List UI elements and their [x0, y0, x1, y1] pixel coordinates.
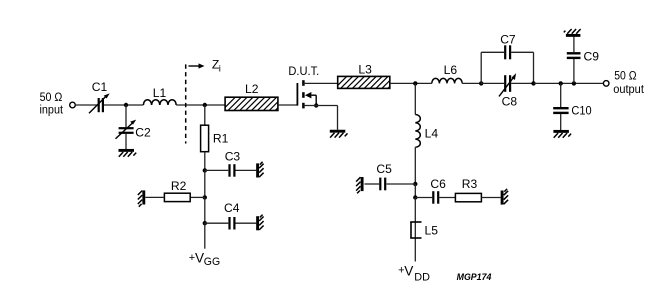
label C10: [571, 104, 591, 118]
capacitor C9: [567, 37, 581, 58]
node C6: [413, 195, 417, 199]
node parallel right: [531, 81, 535, 85]
wire node to R2: [190, 196, 205, 198]
wire L4 to C5 node: [414, 147, 416, 184]
node at R1 top: [203, 103, 207, 107]
svg-text:R1: R1: [213, 131, 229, 145]
arrow Zi: [189, 63, 205, 68]
inductor L5 (ferrite bead bracket): [410, 222, 421, 238]
label C1: [92, 80, 108, 94]
node after L3: [413, 81, 417, 85]
wire R1 node down to R2 node: [204, 170, 206, 197]
inductor L1: [143, 100, 176, 105]
wire source to ground: [303, 106, 337, 130]
wire C6 node down to L5: [414, 198, 416, 262]
svg-text:C10: C10: [571, 104, 591, 118]
wire to output: [534, 82, 604, 84]
wire node down to C10: [560, 83, 562, 107]
ground above C9: [564, 29, 581, 35]
label R3: [462, 177, 478, 191]
dashed reference line Zi: [185, 64, 187, 143]
node parallel left: [479, 81, 483, 85]
wire L2 to gate: [278, 104, 298, 106]
wire R1 to C3 node: [204, 152, 206, 171]
svg-text:C3: C3: [225, 149, 241, 163]
label R2: [171, 179, 187, 193]
resistor R3: [455, 193, 481, 201]
transistor D.U.T. (MOSFET): [297, 80, 316, 108]
inductor L2 (hatched strip): [222, 97, 288, 110]
label R1: [213, 131, 229, 145]
ground under C10: [553, 131, 571, 137]
inductor L3 (hatched strip): [335, 76, 400, 88]
ground right of R3: [502, 189, 508, 205]
label C5: [376, 162, 392, 176]
svg-text:GG: GG: [204, 256, 220, 268]
wire main branch to C8: [481, 82, 504, 84]
wire C4 node down to VGG: [204, 223, 206, 249]
label C8: [502, 95, 518, 109]
svg-text:C8: C8: [502, 95, 518, 109]
label L1: [153, 86, 167, 100]
capacitor C2 (variable shunt): [116, 120, 137, 150]
capacitor C7: [505, 45, 510, 59]
svg-text:C9: C9: [584, 50, 600, 64]
label D.U.T.: [288, 64, 319, 78]
ground left of R2: [138, 190, 144, 206]
resistor R1: [201, 125, 209, 152]
svg-text:L5: L5: [425, 224, 439, 238]
label L5: [425, 224, 439, 238]
ground left of C5: [356, 177, 362, 193]
inductor L4 (vertical): [415, 115, 420, 148]
node C3: [203, 168, 207, 172]
wire node to C3: [205, 169, 229, 171]
wire node to C2: [125, 105, 127, 127]
svg-text:L2: L2: [245, 82, 259, 96]
svg-text:C7: C7: [500, 32, 516, 46]
capacitor C10: [553, 108, 568, 130]
node C5: [413, 182, 417, 186]
wire R3 to ground: [481, 197, 500, 199]
svg-text:C6: C6: [430, 177, 446, 191]
label +VGG: [189, 251, 220, 268]
wire node down to L4: [414, 83, 416, 114]
wire R2 node down to C4 node: [204, 197, 206, 223]
svg-text:R2: R2: [171, 179, 187, 193]
capacitor C4: [230, 217, 257, 230]
svg-text:D.U.T.: D.U.T.: [288, 64, 319, 78]
capacitor C6: [433, 191, 455, 204]
svg-text:C4: C4: [224, 201, 240, 215]
wire node up to C9: [573, 59, 575, 83]
svg-text:C2: C2: [135, 125, 151, 139]
svg-text:V: V: [404, 264, 413, 279]
label L3: [358, 63, 372, 77]
wire L3 to node: [390, 82, 432, 84]
node C4: [203, 221, 207, 225]
ground under source: [330, 131, 348, 137]
svg-text:DD: DD: [414, 272, 430, 284]
wire top branch C7: [481, 52, 533, 83]
wire C8 to right node: [511, 82, 533, 84]
svg-text:output: output: [613, 82, 644, 96]
svg-text:i: i: [219, 64, 221, 75]
wire node to C4: [205, 222, 229, 224]
label C7: [500, 32, 516, 46]
svg-text:R3: R3: [462, 177, 478, 191]
label C9: [584, 50, 600, 64]
label Zi: [212, 58, 221, 75]
wire drain to L3: [303, 82, 337, 84]
output terminal: [603, 81, 609, 87]
label L2: [245, 82, 259, 96]
node after C1: [124, 103, 128, 107]
wire node to C6: [415, 197, 432, 199]
label MGP174: [457, 272, 492, 283]
svg-text:L4: L4: [425, 126, 439, 140]
svg-text:50 Ω: 50 Ω: [614, 69, 636, 83]
capacitor C5: [365, 178, 386, 191]
resistor R2: [164, 193, 190, 201]
node R2: [203, 195, 207, 199]
svg-text:C5: C5: [376, 162, 392, 176]
capacitor C8 (variable): [499, 73, 516, 96]
capacitor C1 (variable): [89, 93, 110, 113]
wire C5 node to C5: [386, 183, 415, 185]
label +VDD: [398, 264, 430, 284]
label C6: [430, 177, 446, 191]
label C3: [225, 149, 241, 163]
inductor L6: [432, 78, 462, 83]
node C9: [572, 81, 576, 85]
label 50 ohm input: [40, 90, 64, 117]
svg-text:MGP174: MGP174: [457, 272, 492, 283]
ground under C2: [119, 150, 137, 156]
wire C5 node down to C6 node: [414, 184, 416, 198]
wire L6 to parallel node: [462, 82, 481, 84]
input terminal: [70, 102, 76, 108]
ground right of C3: [258, 162, 264, 178]
capacitor C3: [230, 164, 257, 177]
svg-text:L1: L1: [153, 86, 167, 100]
node source junction: [314, 103, 318, 107]
ground right of C4: [258, 215, 264, 231]
svg-text:C1: C1: [92, 80, 108, 94]
wire R2 to ground: [145, 196, 164, 198]
wire node down to R1: [204, 105, 206, 125]
wire input to C1: [75, 104, 97, 106]
node C10: [559, 81, 563, 85]
svg-text:L6: L6: [444, 63, 458, 77]
wire L1 to node: [176, 104, 225, 106]
svg-text:L3: L3: [358, 63, 372, 77]
label C4: [224, 201, 240, 215]
label L6: [444, 63, 458, 77]
label L4: [425, 126, 439, 140]
svg-text:input: input: [40, 103, 64, 117]
label 50 ohm output: [613, 69, 644, 96]
wire C1 to L1: [104, 104, 143, 106]
label C2: [135, 125, 151, 139]
svg-text:V: V: [195, 251, 204, 266]
